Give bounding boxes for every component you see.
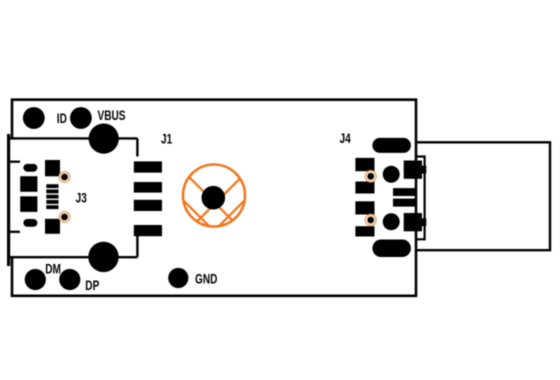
svg-text:J4: J4 <box>340 130 351 146</box>
svg-text:J3: J3 <box>76 190 87 206</box>
svg-text:VBUS: VBUS <box>98 107 126 123</box>
svg-text:J1: J1 <box>161 131 172 147</box>
svg-text:GND: GND <box>195 271 218 287</box>
svg-text:DP: DP <box>85 277 99 293</box>
svg-text:ID: ID <box>57 111 67 127</box>
svg-text:DM: DM <box>45 261 61 277</box>
